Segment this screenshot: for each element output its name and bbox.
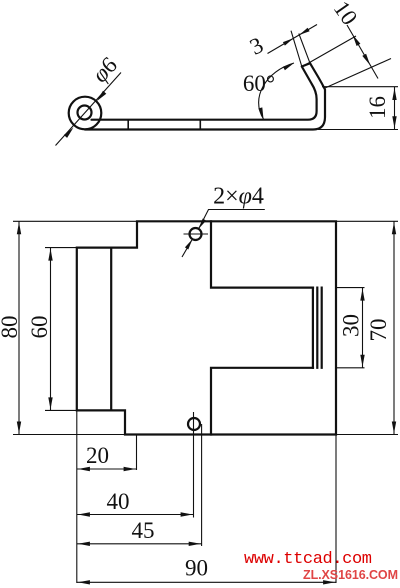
svg-text:30: 30 — [339, 314, 364, 337]
svg-text:45: 45 — [132, 518, 155, 543]
svg-text:16: 16 — [365, 96, 390, 119]
svg-text:40: 40 — [107, 489, 130, 514]
svg-text:www.ttcad.com: www.ttcad.com — [244, 550, 372, 569]
svg-text:60°: 60° — [243, 71, 275, 96]
svg-text:20: 20 — [86, 443, 109, 468]
svg-text:60: 60 — [27, 316, 52, 339]
svg-text:70: 70 — [366, 319, 391, 342]
svg-text:ZL.XS1616.COM: ZL.XS1616.COM — [303, 568, 398, 582]
svg-text:90: 90 — [185, 556, 208, 581]
svg-text:80: 80 — [0, 316, 22, 339]
svg-text:2×φ4: 2×φ4 — [213, 184, 264, 210]
